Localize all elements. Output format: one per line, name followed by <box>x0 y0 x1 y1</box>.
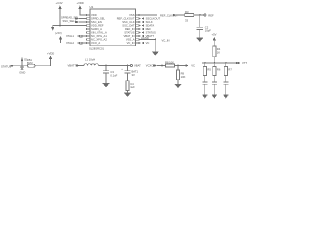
resistor R9 <box>176 66 185 80</box>
power flag +VDD bottom left <box>47 52 54 59</box>
left pin boxes <box>87 14 91 44</box>
svg-text:U1: U1 <box>90 5 94 9</box>
IC U1 <box>90 5 136 46</box>
ground under C2 <box>197 38 204 42</box>
U1 right pin names <box>117 13 135 45</box>
right pin9 flag <box>139 41 149 45</box>
right pin6 flag <box>139 31 156 35</box>
port VCXO chain 3 <box>146 64 157 68</box>
svg-text:VCO_A: VCO_A <box>91 41 100 45</box>
power flag +3.3V <box>56 1 63 9</box>
resistor R4 <box>213 46 221 57</box>
right pin4 flag <box>139 24 154 28</box>
port VBATT chain 2 <box>68 64 80 68</box>
wire R8 to flag <box>175 65 186 67</box>
wire rail to pin4 <box>53 25 87 27</box>
wire C2 to ground <box>199 29 201 38</box>
capacitor C3 <box>103 66 118 88</box>
svg-text:VTT: VTT <box>242 61 247 65</box>
resistor R5 <box>203 63 211 76</box>
capacitor C4 polarized <box>106 66 139 97</box>
svg-text:0.1uF: 0.1uF <box>110 73 117 77</box>
svg-text:VSS_A: VSS_A <box>126 38 135 42</box>
svg-text:NC_XPG_A1: NC_XPG_A1 <box>91 34 107 38</box>
port SPREAD_SEL pin2 left <box>61 16 87 20</box>
junction dot R9 <box>177 65 179 67</box>
power flag (+5V) down <box>51 26 62 35</box>
svg-text:XTAL2: XTAL2 <box>66 41 75 45</box>
junction dots on rail <box>204 62 206 64</box>
svg-text:REF_CLKOUT: REF_CLKOUT <box>160 13 178 17</box>
net label REF_CLKOUT <box>160 13 178 17</box>
right pin8 wire to ground <box>139 39 155 41</box>
resistor R8 <box>165 60 175 67</box>
right pin2 flag <box>139 17 160 21</box>
wire FB1 to +VDD flag <box>35 59 51 66</box>
port SSC_EN pin3 left <box>63 19 87 23</box>
svg-text:3V: 3V <box>132 73 135 77</box>
right pin5 flag <box>139 27 151 31</box>
svg-text:XTAL1: XTAL1 <box>66 34 75 38</box>
ground right of IC <box>152 52 159 56</box>
svg-text:SPRD_SEL: SPRD_SEL <box>91 17 106 21</box>
power flag +VDD <box>77 1 84 9</box>
wire L1 to port <box>98 65 130 67</box>
wire R9 to ground <box>177 80 179 85</box>
cap under R7 <box>223 76 228 99</box>
svg-text:REF_CLKOUT: REF_CLKOUT <box>117 17 135 21</box>
wire to R3 <box>176 14 185 16</box>
junction node REF <box>199 14 201 16</box>
resistor R7 <box>224 63 232 76</box>
right pin3 flag <box>139 20 153 24</box>
junction dot <box>59 25 61 27</box>
power flag up arrow <box>59 36 62 43</box>
svg-text:VC_IN: VC_IN <box>162 38 170 42</box>
svg-text:XIN_XTAL_A: XIN_XTAL_A <box>91 31 107 35</box>
wire to L1 <box>79 65 84 67</box>
svg-text:VDD_REF: VDD_REF <box>91 24 104 28</box>
svg-text:GND: GND <box>19 70 25 74</box>
svg-text:VC: VC <box>146 41 150 45</box>
port VBAT circle <box>130 64 141 68</box>
ferrite bead FB1 <box>27 58 35 67</box>
svg-text:VCXO: VCXO <box>146 64 154 68</box>
svg-text:STATUS: STATUS <box>124 31 134 35</box>
cap under R5 <box>202 76 207 99</box>
svg-text:1K: 1K <box>217 50 220 54</box>
svg-text:R9: R9 <box>181 72 185 76</box>
diode clamp D1 <box>19 58 28 75</box>
U1 left pin names <box>91 13 107 45</box>
svg-text:SSC_EN: SSC_EN <box>91 20 102 24</box>
svg-text:L1 10uH: L1 10uH <box>85 58 95 62</box>
svg-text:VBAT: VBAT <box>134 64 141 68</box>
wire down <box>154 39 156 41</box>
wire +VDD to pin 1 left <box>80 9 87 15</box>
svg-text:SDATA: SDATA <box>146 24 155 28</box>
right pin boxes <box>136 14 140 44</box>
inductor L1 <box>84 58 98 66</box>
junction dot C3 <box>105 65 107 67</box>
wire +3.3V down to rail <box>59 9 61 26</box>
port VT flag <box>236 61 248 65</box>
svg-text:+: + <box>121 68 123 71</box>
svg-text:+VDD: +VDD <box>47 52 54 56</box>
svg-text:SSC_DAT: SSC_DAT <box>122 24 135 28</box>
svg-text:NC_XPG_A2: NC_XPG_A2 <box>91 38 107 42</box>
svg-text:AGND: AGND <box>141 36 149 40</box>
svg-text:STATUS: STATUS <box>1 65 11 69</box>
svg-text:VBATT: VBATT <box>68 64 77 68</box>
svg-text:1uF: 1uF <box>130 85 135 89</box>
junction dot C4 <box>127 65 129 67</box>
pin1 right wire <box>139 14 157 16</box>
wire R4 to rail <box>213 57 215 63</box>
svg-text:REF_IN: REF_IN <box>125 27 135 31</box>
wire to clamp <box>14 65 28 67</box>
svg-text:VC: VC <box>191 64 195 68</box>
svg-text:VBAT_IN: VBAT_IN <box>123 34 134 38</box>
capacitor C2 <box>197 25 212 32</box>
port STATUS bottom left <box>1 65 14 69</box>
svg-text:VC_IN: VC_IN <box>127 41 135 45</box>
svg-text:10pF: 10pF <box>205 28 211 32</box>
svg-text:REF: REF <box>146 27 152 31</box>
wire R3 to REF port <box>194 14 204 16</box>
testpoint XOUT pin7 left <box>66 34 87 38</box>
svg-text:REF: REF <box>208 13 214 17</box>
svg-text:+3.3V: +3.3V <box>56 1 63 5</box>
svg-text:SSCLKOUT: SSCLKOUT <box>146 17 161 21</box>
cap under R6 <box>212 76 217 99</box>
right pin7 flag <box>139 34 154 38</box>
svg-text:SHDN_A: SHDN_A <box>91 27 102 31</box>
svg-text:VSS: VSS <box>129 13 135 17</box>
svg-text:R4: R4 <box>217 47 221 51</box>
testpoint XIN pin9 left <box>66 41 87 45</box>
svg-text:SSC_CLK: SSC_CLK <box>122 20 134 24</box>
svg-text:+5V: +5V <box>212 33 217 37</box>
power flag +5V over R4 <box>212 33 217 43</box>
svg-text:+VDD: +VDD <box>77 1 84 5</box>
wire to R8 <box>157 65 166 67</box>
svg-text:VDD: VDD <box>91 13 97 17</box>
svg-text:R5: R5 <box>207 68 211 72</box>
wire +5V to R4 <box>213 43 215 46</box>
svg-text:STATUS: STATUS <box>146 31 156 35</box>
svg-text:SCLK: SCLK <box>146 20 153 24</box>
wire junction down to C2 <box>199 15 201 27</box>
resistor R3 <box>185 10 194 23</box>
svg-text:(+5V): (+5V) <box>55 31 62 35</box>
ground under R9 <box>175 84 182 88</box>
junction dot before R8 <box>161 65 163 67</box>
svg-text:SSC_SEL1: SSC_SEL1 <box>63 19 77 23</box>
svg-text:33: 33 <box>185 18 188 22</box>
svg-text:SL28SRC01: SL28SRC01 <box>89 47 104 51</box>
svg-text:R6: R6 <box>217 68 221 72</box>
resistor R6 <box>213 63 221 76</box>
svg-text:10K: 10K <box>181 75 186 79</box>
svg-text:R7: R7 <box>228 68 232 72</box>
bottom right rail <box>202 62 237 64</box>
net flag VC <box>186 64 195 68</box>
port REF <box>204 13 214 17</box>
